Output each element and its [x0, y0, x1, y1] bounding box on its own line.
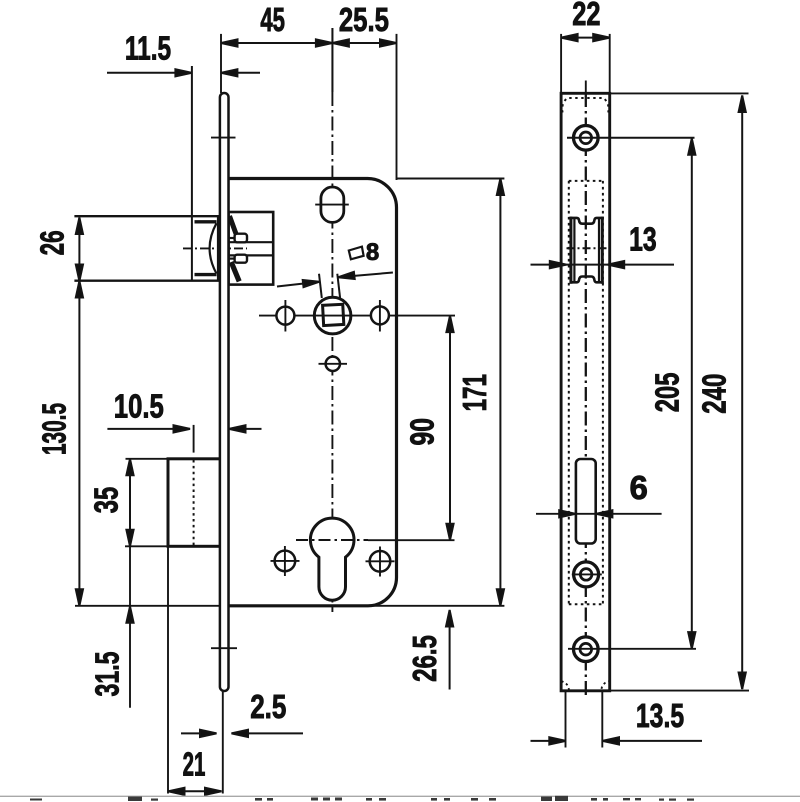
case top edge extension	[397, 178, 505, 180]
strip bottom corner dotted arcs	[560, 681, 569, 690]
latch bolt body top edge	[74, 215, 220, 217]
latch edge centerline dash	[567, 247, 607, 249]
svg-text:90: 90	[405, 418, 441, 446]
dimension 240	[741, 96, 743, 690]
extension lines for 22	[560, 34, 562, 93]
extension line x=332.4 top	[331, 28, 333, 92]
latch bevel wedge upper	[230, 216, 237, 234]
bottom screw hole	[574, 637, 599, 662]
latch spring tab lower	[235, 255, 247, 263]
vertical centerline x=332.4 dash-dot	[331, 92, 333, 612]
dimension 6 line crossing strip	[536, 513, 662, 515]
lock case outline	[228, 179, 397, 606]
svg-text:130.5: 130.5	[36, 403, 73, 455]
extension line x=221 top	[220, 34, 222, 93]
cropped caption hairline at bottom	[0, 795, 800, 797]
extension line x=168 down to 21 dim	[167, 546, 169, 793]
top screw tick + 205 extension	[567, 137, 695, 139]
vertical centerline x=332.4 solid top	[331, 28, 333, 92]
dimension 2.5	[181, 732, 217, 734]
extension y=540 for 90	[368, 539, 455, 541]
horizontal line through follower y=315.6	[259, 315, 455, 317]
follower side hole left	[276, 307, 294, 325]
latch spring tab upper	[235, 234, 247, 243]
latch head lip upper	[195, 220, 217, 223]
dimension 26.5	[449, 610, 451, 690]
faceplate (front view, narrow bar)	[220, 93, 229, 691]
small hole below follower	[326, 357, 340, 371]
latch bevel wedge lower	[231, 262, 239, 281]
svg-text:26: 26	[33, 230, 70, 255]
euro cylinder profile	[310, 518, 354, 600]
240 extension bottom	[611, 690, 749, 692]
svg-text:45: 45	[260, 2, 285, 38]
deadbolt box	[168, 459, 220, 547]
case bottom edge extension left	[75, 605, 227, 607]
latch head front edge x=218.3	[217, 216, 220, 281]
svg-text:13: 13	[629, 222, 657, 258]
dimension 21	[168, 790, 222, 792]
dimension 26: line x=79.4	[78, 218, 80, 282]
svg-text:2.5: 2.5	[250, 689, 286, 726]
cylinder screw hole left	[275, 551, 296, 572]
svg-text:6: 6	[630, 469, 648, 506]
svg-text:35: 35	[89, 487, 126, 513]
follower square 8mm	[323, 304, 344, 325]
extension x=222.8 below faceplate	[222, 692, 224, 794]
svg-text:11.5: 11.5	[125, 31, 171, 67]
cropped caption text remnants	[30, 796, 694, 801]
svg-text:31.5: 31.5	[90, 651, 127, 696]
dimension 25.5 arrows	[332, 39, 349, 46]
case bottom edge extension right	[368, 605, 504, 607]
middle screw hole	[574, 562, 599, 587]
strip centerline dash-dot	[585, 93, 587, 697]
square symbol for 8	[349, 247, 364, 260]
dimension 45: line y=43 from x221 to x332	[221, 42, 397, 44]
latch head lip lower	[195, 273, 217, 276]
svg-text:10.5: 10.5	[114, 389, 164, 426]
latch bolt edge view outer verticals	[569, 217, 572, 284]
dimension 11.5: line y=72.8	[107, 72, 192, 74]
dimension 13.5	[531, 740, 552, 742]
oval slot tick	[315, 204, 349, 206]
top screw hole	[574, 126, 599, 151]
svg-text:8: 8	[366, 239, 379, 266]
dimension 35: line x=130	[129, 459, 131, 547]
latch guide divider lower	[229, 254, 274, 256]
dimension 171	[499, 179, 501, 606]
svg-text:205: 205	[650, 373, 687, 413]
deadbolt dotted line x=193.6	[193, 460, 195, 545]
dimension 8 leader left	[277, 282, 320, 287]
svg-text:21: 21	[183, 745, 206, 782]
latch bolt edge bottom with notch	[570, 277, 604, 283]
latch nose arc	[210, 223, 217, 273]
cylinder centerline dash-dot	[296, 539, 368, 541]
latch bolt edge inner verticals	[573, 218, 575, 282]
oval slot top	[321, 187, 344, 222]
bottom screw tick + 205 extension bottom	[568, 648, 696, 650]
dimension 22	[561, 37, 610, 39]
dimension 13 crossing strip	[531, 264, 675, 266]
faceplate tick bottom y=648.2	[211, 647, 237, 649]
tick x=193.6 for 10.5	[193, 425, 195, 453]
strip centerline tick above	[585, 81, 587, 93]
svg-text:240: 240	[697, 374, 734, 414]
240 extension top	[611, 92, 749, 94]
latch centerline dash-dot	[183, 247, 247, 249]
latch bolt body bottom edge	[74, 280, 220, 282]
latch bolt edge top with notch	[570, 218, 604, 224]
follower side hole right	[371, 306, 389, 324]
extension line x=396.5 top	[396, 34, 398, 180]
latch interior guide box	[229, 212, 274, 285]
latch tab stub upper	[229, 237, 235, 239]
deadbolt slot 6mm	[576, 459, 596, 544]
dotted semicircle latch hole top	[562, 98, 608, 113]
svg-text:26.5: 26.5	[407, 635, 444, 682]
cylinder screw hole right	[370, 551, 391, 572]
latch guide divider upper	[229, 241, 274, 243]
svg-text:22: 22	[572, 0, 600, 33]
faceplate tick top y=137.6	[211, 137, 236, 139]
13.5 extension lines	[565, 691, 567, 748]
faceplate strip (side view)	[561, 93, 610, 691]
latch head plate vertical x=191.9	[191, 66, 193, 281]
square extension lines	[319, 274, 322, 298]
deadbolt extension bottom	[125, 545, 168, 547]
dimension 130.5: line x=79.4	[78, 281, 80, 606]
svg-text:13.5: 13.5	[636, 699, 684, 735]
svg-text:171: 171	[456, 374, 493, 411]
dotted pocket rectangle	[568, 181, 570, 604]
dimension 31.5: line x=130 continuing down	[129, 546, 131, 708]
svg-text:25.5: 25.5	[339, 2, 389, 39]
dimension 205	[691, 138, 693, 648]
deadbolt extension top	[126, 458, 169, 460]
dimension 8 leader right	[338, 273, 393, 278]
dimension 90	[449, 316, 451, 541]
dimension 10.5	[107, 428, 190, 430]
latch tab stub lower	[229, 258, 235, 260]
follower circle	[314, 297, 351, 334]
